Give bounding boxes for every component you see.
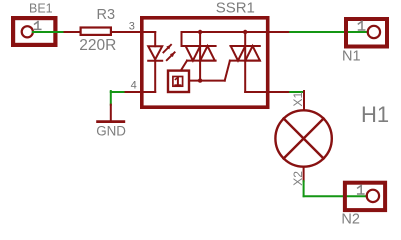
svg-text:N2: N2: [341, 211, 360, 227]
wire net SSR1 to N1: [290, 31, 368, 33]
svg-text:N1: N1: [342, 48, 361, 64]
svg-text:R3: R3: [97, 7, 116, 23]
svg-text:SSR1: SSR1: [216, 0, 255, 16]
triac T1 (driver): [181, 32, 216, 81]
junction rail-T2: [243, 30, 247, 34]
wire BE1 pin1 to R3: [33, 31, 65, 33]
wire SSR1 pin 4 inside: [141, 91, 155, 93]
svg-text:3: 3: [129, 20, 135, 32]
wire gate bus: [190, 80, 225, 82]
svg-text:BE1: BE1: [29, 1, 53, 15]
connector N2: [345, 183, 385, 210]
lamp H1: [275, 91, 331, 181]
junction gate bus: [198, 78, 202, 82]
svg-text:GND: GND: [96, 124, 126, 139]
pin 1 label of N2: [358, 185, 364, 194]
ground: [98, 105, 124, 122]
triac T2 (main): [225, 32, 260, 92]
pin 1 label of BE1: [35, 22, 41, 30]
svg-text:220R: 220R: [79, 37, 116, 54]
resistor R3: [65, 28, 156, 35]
wire T2 output to right border: [245, 91, 290, 93]
opto LED D1 inside SSR1: [148, 32, 162, 92]
wire net lamp X2 to N2: [304, 181, 367, 196]
pin 1 label of N1: [358, 21, 364, 30]
svg-text:H1: H1: [361, 102, 389, 127]
wire net SSR1 to lamp X1: [290, 91, 303, 93]
solid state relay SSR1 box: [142, 18, 268, 107]
wire net pin4 to GND: [111, 91, 141, 105]
connector BE1: [13, 18, 55, 45]
zero-crossing detector block "1": [168, 71, 189, 92]
junction rail-T1: [198, 30, 202, 34]
wire top rail MT2 net: [182, 32, 270, 46]
svg-text:4: 4: [131, 80, 137, 92]
connector N1: [346, 19, 387, 47]
svg-text:X1: X1: [291, 91, 305, 106]
LED light emission arrows: [163, 45, 174, 60]
pin stub SSR1 top right: [270, 31, 291, 33]
